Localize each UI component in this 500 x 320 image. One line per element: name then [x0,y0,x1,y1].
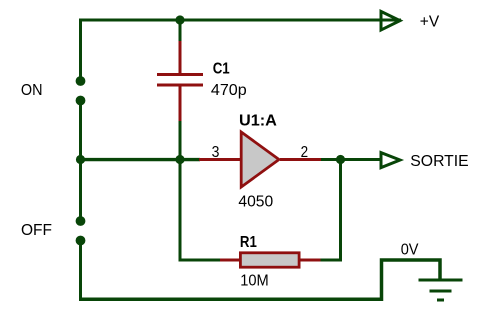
svg-text:3: 3 [212,144,220,161]
svg-text:C1: C1 [213,60,230,77]
svg-text:OFF: OFF [21,222,52,239]
svg-text:2: 2 [301,144,309,161]
svg-text:4050: 4050 [238,193,273,210]
svg-text:SORTIE: SORTIE [410,153,468,170]
svg-text:10M: 10M [240,272,269,289]
svg-text:+V: +V [420,13,440,30]
svg-text:470p: 470p [211,82,247,99]
svg-text:U1:A: U1:A [239,112,277,129]
svg-text:0V: 0V [401,241,419,258]
svg-text:ON: ON [21,82,43,99]
svg-text:R1: R1 [240,234,257,251]
